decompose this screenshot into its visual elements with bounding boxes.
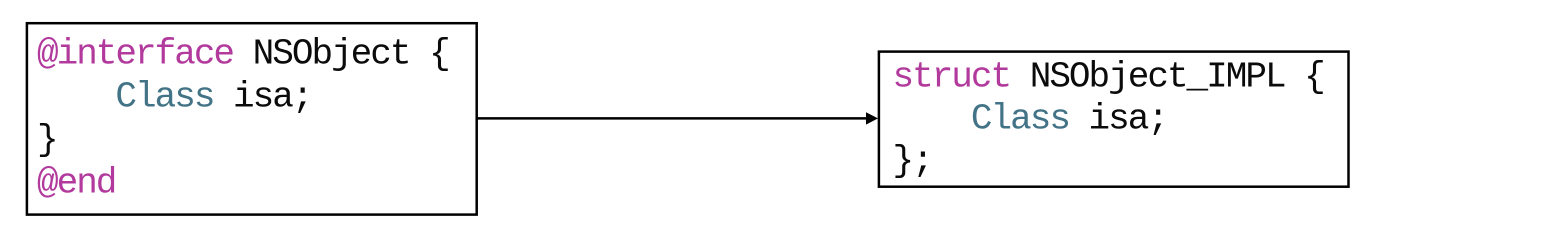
svg-text:Class isa;: Class isa; (893, 99, 1167, 140)
arrow from left box to right box (477, 117, 868, 120)
svg-text:}: } (37, 120, 57, 161)
svg-text:struct NSObject_IMPL {: struct NSObject_IMPL { (893, 57, 1324, 98)
svg-text:@end: @end (37, 163, 115, 204)
svg-text:};: }; (893, 140, 932, 181)
left code box border (27, 23, 477, 214)
svg-text:@interface NSObject {: @interface NSObject { (37, 34, 449, 75)
svg-text:Class isa;: Class isa; (37, 77, 311, 118)
right code box border (879, 52, 1349, 187)
